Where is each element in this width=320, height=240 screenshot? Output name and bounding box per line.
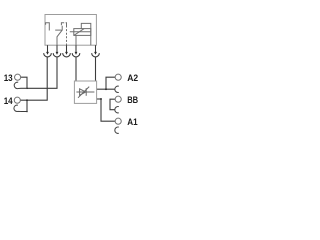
svg-text:A2: A2 xyxy=(127,72,138,83)
svg-text:14: 14 xyxy=(4,95,14,106)
svg-text:13: 13 xyxy=(4,72,13,83)
svg-text:A1: A1 xyxy=(127,116,137,127)
svg-text:BB: BB xyxy=(127,94,138,105)
